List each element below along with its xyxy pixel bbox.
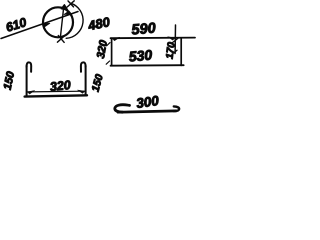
svg-text:590: 590 xyxy=(131,20,157,38)
dimension line 610 (diameter leader) xyxy=(1,12,78,39)
filled arrow at chord top xyxy=(61,5,68,11)
arrowhead upper-right on 610 line xyxy=(64,11,71,14)
tick at top end of 320 dimension (left edge) xyxy=(107,43,110,46)
svg-text:300: 300 xyxy=(135,93,160,111)
arc dimension 480 xyxy=(66,3,83,38)
rectangle bottom edge xyxy=(111,64,184,67)
strip left curled end xyxy=(115,105,130,112)
chord line inside circle xyxy=(60,6,63,37)
channel right web xyxy=(85,66,87,95)
svg-text:480: 480 xyxy=(86,14,112,34)
tick at bend line crossing top edge xyxy=(173,38,178,42)
rectangle left edge xyxy=(111,38,113,65)
arrowhead left of channel 320 xyxy=(27,91,34,95)
strip right curled end xyxy=(173,106,179,111)
rectangle right edge xyxy=(180,38,182,66)
svg-text:530: 530 xyxy=(128,46,153,64)
arrowhead right of 590 xyxy=(168,37,176,40)
svg-text:320: 320 xyxy=(95,38,110,59)
arrowhead lower-left on 610 line xyxy=(43,23,50,26)
circle blank D610 xyxy=(43,7,73,37)
rectangle top edge / 590 dimension line xyxy=(111,37,196,40)
bend line (vertical) at right of rectangle xyxy=(174,25,176,54)
tick at bend line bottom end xyxy=(172,50,177,54)
tick X at chord bottom xyxy=(57,36,64,43)
tick at bottom end of 320 dimension (left edge) xyxy=(106,61,109,64)
flat strip body xyxy=(118,111,176,112)
svg-text:150: 150 xyxy=(2,70,18,91)
channel left flange lip xyxy=(27,62,32,71)
svg-text:170: 170 xyxy=(165,41,178,59)
svg-text:320: 320 xyxy=(49,78,71,94)
svg-text:150: 150 xyxy=(90,73,106,93)
arrowhead left of 590 xyxy=(112,37,120,40)
dimension line 320 of channel xyxy=(27,90,84,93)
channel left web xyxy=(26,66,28,96)
arrowhead right of channel 320 xyxy=(78,90,85,93)
channel bottom xyxy=(25,95,87,96)
svg-text:610: 610 xyxy=(4,15,28,34)
tick X at chord top xyxy=(67,1,74,7)
channel right flange lip xyxy=(81,62,86,71)
